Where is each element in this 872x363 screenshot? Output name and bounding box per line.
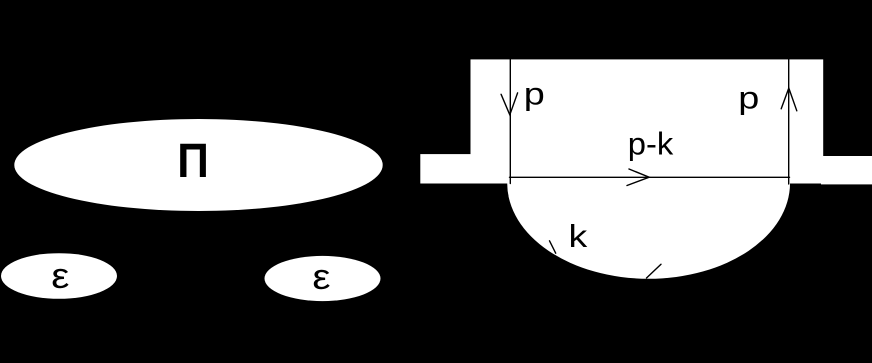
- svg-text:p: p: [524, 78, 545, 112]
- svg-text:ε: ε: [312, 257, 330, 297]
- svg-text:Π: Π: [177, 133, 209, 187]
- svg-text:p-k: p-k: [628, 126, 674, 161]
- svg-text:p: p: [738, 81, 759, 115]
- svg-text:ε: ε: [51, 256, 69, 296]
- svg-text:k: k: [569, 220, 588, 255]
